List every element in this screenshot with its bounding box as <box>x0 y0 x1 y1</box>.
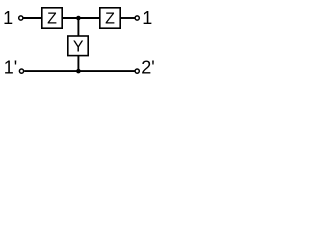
wire shunt lower: Y box down to bottom rail <box>77 56 79 72</box>
svg-text:2': 2' <box>141 58 154 78</box>
wire shunt upper: top junction down to Y box <box>77 18 79 36</box>
background <box>0 0 163 86</box>
impedance box Z (left series) <box>42 8 62 28</box>
wire between Z boxes (top middle) <box>63 17 100 19</box>
svg-text:Y: Y <box>73 38 84 55</box>
impedance box Z (right series) <box>100 8 120 28</box>
junction dot bottom node <box>76 69 81 74</box>
terminal circle bottom-left <box>19 69 23 73</box>
terminal circle top-right <box>135 16 139 20</box>
svg-text:1: 1 <box>3 8 13 28</box>
wire top-left: terminal 1 to first Z box <box>23 17 41 19</box>
junction dot top node <box>76 16 81 21</box>
svg-text:Z: Z <box>47 11 57 28</box>
wire top-right: second Z box to terminal 1 <box>121 17 135 19</box>
svg-text:1': 1' <box>4 58 17 78</box>
terminal circle bottom-right <box>135 69 139 73</box>
admittance box Y (shunt) <box>68 36 88 56</box>
terminal circle top-left <box>19 16 23 20</box>
svg-text:Z: Z <box>105 11 115 28</box>
svg-text:1: 1 <box>142 8 152 28</box>
wire bottom rail: terminal 1' to terminal 2' <box>24 70 135 72</box>
